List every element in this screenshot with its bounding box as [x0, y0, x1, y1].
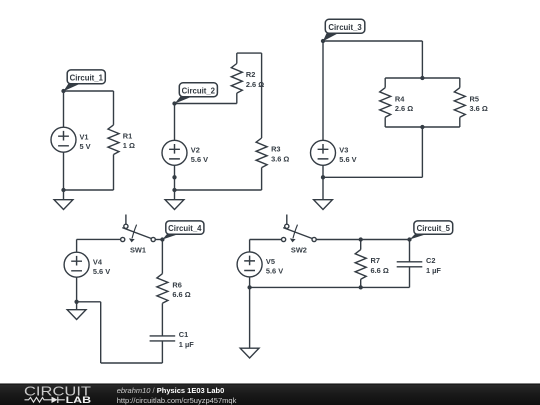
wire V1 top lead [63, 91, 65, 127]
wire ground stub circuit3 [322, 177, 324, 199]
node Circuit_1 [61, 89, 65, 93]
Circuit_2 label callout [175, 83, 218, 104]
logo diode symbol [49, 399, 52, 401]
switch SW1 [121, 215, 156, 255]
wire V3 bottom lead [322, 165, 324, 177]
svg-text:V5: V5 [266, 257, 275, 266]
wire to V4 bottom [77, 301, 101, 303]
wire circuit4 bottom [101, 362, 163, 364]
voltage source V4 [64, 252, 89, 277]
svg-text:R6: R6 [172, 280, 181, 289]
capacitor C1 [150, 336, 176, 341]
Circuit_1 label callout [63, 70, 105, 91]
svg-text:5 V: 5 V [80, 142, 91, 151]
wire SW2 to R7 [316, 239, 360, 241]
switch SW2 [282, 215, 317, 255]
svg-text:V4: V4 [93, 257, 103, 266]
svg-text:LAB: LAB [66, 395, 92, 405]
wire circuit2 bottom [175, 189, 262, 191]
voltage source V2 [162, 140, 187, 165]
wire V2 top lead [174, 104, 176, 141]
svg-text:3.6 Ω: 3.6 Ω [271, 154, 289, 163]
wire R2 top lead [236, 53, 238, 63]
resistor R6 [157, 274, 168, 304]
wire circuit1 bottom [64, 189, 114, 191]
svg-text:R2: R2 [246, 70, 255, 79]
wire R1 top lead [113, 91, 115, 125]
ground circuit4 [67, 310, 86, 320]
svg-text:2.6 Ω: 2.6 Ω [395, 104, 413, 113]
svg-text:1 µF: 1 µF [179, 340, 194, 349]
wire V3 top lead [322, 41, 324, 140]
wire ground stub circuit5 [249, 287, 251, 348]
wire R4 bottom lead [384, 117, 386, 127]
node Circuit_5 [407, 237, 411, 241]
svg-text:Circuit_5: Circuit_5 [417, 224, 451, 233]
svg-text:C1: C1 [179, 330, 188, 339]
svg-text:V3: V3 [339, 145, 348, 154]
node parallel bottom [420, 125, 424, 129]
resistor R3 [256, 138, 267, 168]
node Circuit_4 [160, 237, 164, 241]
node circuit2 mid junction [172, 175, 176, 179]
voltage source V1 [51, 127, 76, 152]
footer bar [0, 384, 540, 405]
wire V5 bottom lead [249, 277, 251, 288]
logo resistor squiggle [25, 397, 49, 402]
wire R5 top lead [459, 78, 461, 88]
svg-text:3.6 Ω: 3.6 Ω [470, 104, 488, 113]
svg-text:Circuit_4: Circuit_4 [168, 224, 202, 233]
wire R2 bottom lead [236, 93, 238, 103]
node R7 bottom [359, 285, 363, 289]
wire parallel top rail [385, 77, 460, 79]
node Circuit_3 [321, 39, 325, 43]
wire circuit4 left riser [100, 302, 102, 363]
svg-text:R5: R5 [470, 94, 479, 103]
wire to parallel pair [421, 41, 423, 78]
Circuit_5 label callout [410, 221, 453, 240]
wire R6 top lead [161, 240, 163, 274]
ground circuit5 [240, 348, 259, 358]
wire parallel pair down [421, 127, 423, 177]
wire circuit1 top [64, 90, 114, 92]
wire R5 bottom lead [459, 117, 461, 127]
wire ground stub circuit1 [63, 190, 65, 200]
svg-text:1 µF: 1 µF [426, 266, 441, 275]
svg-text:Circuit_3: Circuit_3 [328, 23, 362, 32]
node R7 top [359, 237, 363, 241]
wire circuit3 top [323, 40, 422, 42]
ground circuit3 [314, 200, 333, 210]
svg-text:5.6 V: 5.6 V [266, 267, 283, 276]
wire ground stub circuit4 [76, 302, 78, 310]
wire C2 bottom lead [409, 267, 411, 288]
svg-text:SW1: SW1 [130, 246, 146, 255]
wire R3 bottom lead [261, 168, 263, 190]
svg-text:http://circuitlab.com/cr5uyzp4: http://circuitlab.com/cr5uyzp457mqk [117, 396, 237, 405]
node circuit2 ground junction [172, 188, 176, 192]
svg-text:C2: C2 [426, 256, 435, 265]
resistor R2 [231, 64, 242, 94]
wire V4 top lead [76, 239, 78, 252]
svg-text:R4: R4 [395, 94, 405, 103]
wire R1 bottom lead [113, 155, 115, 191]
capacitor C2 [397, 262, 423, 267]
resistor R7 [355, 250, 366, 280]
svg-text:1 Ω: 1 Ω [123, 141, 135, 150]
wire R7 bottom lead [360, 279, 362, 287]
wire ground stub circuit2 [174, 190, 176, 200]
svg-text:5.6 V: 5.6 V [93, 267, 110, 276]
svg-text:6.6 Ω: 6.6 Ω [172, 290, 190, 299]
voltage source V5 [237, 252, 262, 277]
wire circuit5 bottom [250, 286, 410, 288]
wire R7 top lead [360, 240, 362, 250]
svg-text:V1: V1 [80, 132, 89, 141]
node circuit5 ground junction [247, 285, 251, 289]
wire node2 to R2 [175, 103, 237, 105]
Circuit_4 label callout [162, 221, 204, 240]
svg-text:Circuit_1: Circuit_1 [70, 73, 104, 82]
wire SW1 to node4 [155, 239, 162, 241]
svg-text:ebrahm10 / Physics 1E03 Lab0: ebrahm10 / Physics 1E03 Lab0 [117, 386, 225, 395]
svg-text:R3: R3 [271, 145, 280, 154]
node parallel top [420, 76, 424, 80]
ground circuit1 [54, 200, 73, 210]
voltage source V3 [311, 140, 336, 165]
resistor R5 [454, 88, 465, 118]
wire V4 bottom lead [76, 277, 78, 302]
wire V4 to SW1 [77, 238, 121, 240]
wire R4 top lead [384, 78, 386, 88]
wire R6 to C1 [161, 303, 163, 336]
node circuit3 ground junction [321, 175, 325, 179]
svg-text:V2: V2 [191, 145, 200, 154]
svg-text:Circuit_2: Circuit_2 [182, 86, 216, 95]
node circuit1 ground junction [61, 188, 65, 192]
resistor R4 [380, 88, 391, 118]
node circuit4 ground junction [74, 300, 78, 304]
Circuit_3 label callout [323, 19, 365, 41]
wire V2 bottom lead [174, 165, 176, 190]
svg-text:SW2: SW2 [291, 246, 307, 255]
wire V1 bottom lead [63, 152, 65, 190]
svg-text:6.6 Ω: 6.6 Ω [371, 266, 389, 275]
ground circuit2 [165, 200, 184, 210]
svg-text:R7: R7 [371, 256, 380, 265]
svg-text:R1: R1 [123, 132, 132, 141]
node Circuit_2 [172, 101, 176, 105]
wire C1 bottom lead [161, 341, 163, 363]
resistor R1 [108, 125, 119, 155]
svg-text:5.6 V: 5.6 V [191, 155, 208, 164]
wire circuit2 top [237, 52, 262, 54]
wire circuit3 bottom [323, 176, 422, 178]
wire R3 top lead [261, 53, 263, 138]
wire R7 to C2 top [361, 239, 410, 241]
svg-text:5.6 V: 5.6 V [339, 155, 356, 164]
wire parallel bottom rail [385, 126, 460, 128]
wire C2 top lead [409, 240, 411, 262]
wire V5 to SW2 [250, 239, 282, 241]
wire V5 top lead [249, 240, 251, 252]
